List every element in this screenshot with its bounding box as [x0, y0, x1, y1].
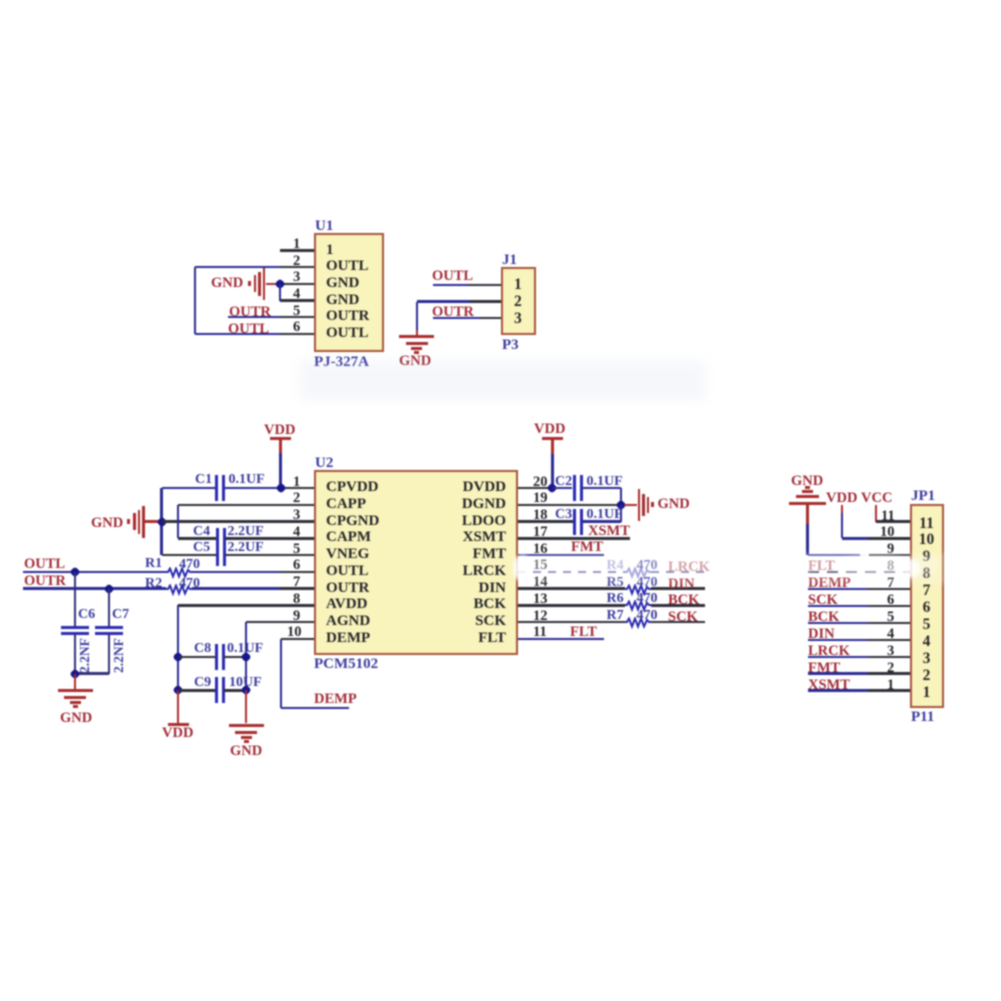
ground GND symbol (right of U2): [638, 489, 641, 521]
net label BCK (JP1 pin 5): [808, 610, 839, 625]
C2 label: [555, 475, 572, 489]
capacitor C8 plates: [215, 644, 218, 670]
wire OUTL net: U1 loop vertical: [194, 267, 196, 334]
U2 pin 7 number: [293, 575, 300, 590]
wire SCK right: [651, 621, 705, 623]
wire OUTR net: U1 pin5: [228, 316, 280, 318]
net label LRCK (JP1 pin 3): [808, 644, 850, 659]
U2 pin 2 name CAPP: [326, 497, 366, 512]
J1 pin 3 number: [514, 311, 522, 327]
U2 pin 16 number: [533, 542, 548, 557]
JP1 pin 3 inside number: [916, 651, 937, 667]
U1 pin 6 number: [293, 320, 300, 335]
junction node OUTR/C7: [104, 583, 115, 594]
wire GND stub to rail (U2 pin3): [145, 520, 158, 522]
C9 label: [194, 676, 211, 690]
wire OUTL net: U1 pin6 horizontal: [195, 333, 280, 335]
U2 pin 18 stub: [518, 520, 573, 522]
U2 pin 17 wire XSMT: [518, 537, 630, 539]
wire GND stem red (JP1): [806, 503, 808, 524]
ground GND (JP1) symbol: [789, 502, 826, 505]
U1 pin 5 stub: [280, 316, 314, 318]
JP1 pin 2 external number: [887, 661, 894, 676]
resistor R5 zigzag: [625, 584, 651, 596]
watermark blob JP1 inside: [908, 557, 938, 575]
U2 pin 5 name VNEG: [326, 547, 369, 562]
net label OUTL (J1): [432, 269, 473, 284]
C6 label: [78, 608, 95, 622]
wire C6-C7 bottom link: [75, 672, 110, 674]
wire OUTR left segment: [23, 587, 166, 589]
net label FLT (U2): [570, 625, 597, 640]
wire C8 right: [224, 656, 246, 658]
JP1 pin 1 wire blue: [808, 689, 868, 691]
C3 label: [555, 508, 572, 522]
JP1 pin 5 external number: [887, 610, 894, 625]
U2 pin 20 stub: [518, 487, 552, 489]
wire BCK right: [651, 604, 705, 606]
JP1 pin 4 wire blue: [808, 639, 868, 641]
wire C1 right to pin1 node: [225, 487, 278, 489]
net label LRCK (faded): [668, 560, 710, 575]
C3 value 0.1UF: [587, 508, 623, 522]
net label XSMT (JP1 pin 1): [808, 678, 850, 693]
U2 pin 20 name DVDD: [420, 480, 506, 495]
R6 value 470: [637, 592, 658, 606]
U2 pin 7 stub: [280, 587, 314, 589]
U2 pin 4 name CAPM: [326, 530, 371, 545]
power VDD label (JP1): [826, 491, 857, 506]
U2 pin 1 name CPVDD: [326, 480, 379, 495]
R2 value 470: [179, 577, 200, 591]
wire GND vertical (J1): [416, 302, 418, 331]
ground GND (below C9): [229, 724, 264, 728]
U1 pin 3 name GND: [326, 276, 359, 291]
wire GND to J1 pin2 horizontal: [417, 300, 470, 302]
net label SCK: [668, 610, 698, 625]
R2 label: [145, 577, 162, 591]
U2 pin 18 name LDOO: [420, 514, 506, 529]
JP1 part label P11: [911, 710, 934, 725]
ground GND symbol (U2 left): [127, 519, 130, 524]
U2 pin 19 wire: [518, 504, 621, 506]
U2 pin 6 name OUTL: [326, 564, 369, 579]
net label OUTR (J1): [432, 305, 474, 320]
wire rail2 CAPP-CAPM vertical: [177, 505, 179, 539]
U2 pin 3 stub: [280, 520, 314, 522]
wire GND stem blue (JP1): [806, 524, 808, 555]
wire DEMP horizontal: [281, 707, 350, 709]
wire C2 right: [582, 487, 621, 489]
U2 pin 3 name CPGND: [326, 514, 379, 529]
power VDD symbol (above U2 pin1): [264, 423, 295, 438]
wire VDD stem blue (pin20): [551, 454, 553, 488]
U2 pin 13 wire left: [518, 604, 625, 606]
U2 pin 16 wire FMT: [518, 554, 604, 556]
R5 label: [607, 576, 624, 590]
JP1 pin 3 wire blue: [808, 656, 868, 658]
JP1 pin 11 inside number: [916, 516, 937, 532]
C5 value 2.2UF: [228, 541, 264, 555]
R7 value 470: [637, 609, 658, 623]
wire VDD stem red (JP1): [841, 505, 843, 514]
JP1 pin 6 external number: [887, 593, 894, 608]
U2 pin 12 name SCK: [420, 614, 506, 629]
U1 pin 1 stub: [280, 249, 314, 251]
wire C2 down to pin19 node: [620, 488, 622, 505]
junction node OUTL/C6: [69, 566, 80, 577]
wire C7 bottom: [108, 635, 110, 674]
wire C8 left: [178, 656, 215, 658]
power VDD symbol (bottom): [168, 723, 189, 726]
wire C3 up to pin19 node: [620, 505, 622, 522]
R1 value 470: [179, 558, 200, 572]
U1 pin 2 name OUTL: [326, 259, 369, 274]
wire OUTL to J1 pin1 (blue): [433, 284, 468, 286]
wire pin2 to rail2: [178, 504, 280, 506]
U2 pin 5 number: [293, 542, 300, 557]
U2 pin 8 name AVDD: [326, 597, 367, 612]
net label FLT (JP1 pin 8): [808, 559, 835, 574]
U1 pin 4 stub: [280, 299, 314, 301]
U2 pin 10 name DEMP: [326, 631, 370, 646]
junction node AVDD/C8: [172, 651, 183, 662]
capacitor C5 plates: [216, 545, 219, 566]
wire GND stem (C6): [74, 674, 76, 689]
capacitor C2 plates: [573, 475, 576, 501]
watermark tint band (upper): [300, 361, 706, 400]
JP1 pin 7 inside number: [916, 583, 937, 599]
U2 pin 1 stub: [280, 487, 314, 489]
U2 pin 9 stub+wire AGND: [246, 621, 314, 623]
J1 designator: [502, 253, 517, 268]
net label OUTL (U1 pin6): [228, 322, 269, 337]
U1 part label PJ-327A: [314, 355, 369, 370]
C6 value 2.2NF (rotated): [78, 638, 92, 673]
JP1 pin 6 inside number: [916, 600, 937, 616]
U2 pin 15 name LRCK: [420, 564, 506, 579]
C8 value 0.1UF: [227, 642, 263, 656]
JP1 pin 6 wire blue: [808, 605, 868, 607]
U2 pin 1 number: [293, 475, 300, 490]
JP1 pin 8 wire (faded): [808, 571, 910, 573]
net label OUTL (left edge): [24, 557, 65, 572]
wire OUTR right segment to pin7: [192, 587, 280, 589]
U2 pin 9 name AGND: [326, 614, 370, 629]
U2 pin 14 wire left: [518, 587, 625, 589]
ic U2 PCM5102 body: [314, 470, 518, 655]
U2 pin 17 number: [533, 525, 548, 540]
capacitor C3 plates: [573, 509, 576, 535]
power VCC label (JP1): [861, 491, 892, 506]
U1 pin 2 number: [293, 254, 300, 269]
R4 value 470 (faded): [637, 559, 658, 573]
U2 pin 5 stub: [280, 554, 314, 556]
net label SCK (JP1 pin 6): [808, 593, 838, 608]
JP1 pin 7 external number: [887, 576, 894, 591]
connector U1 PJ-327A body: [314, 233, 384, 352]
C5 label: [193, 541, 210, 555]
capacitor C6 plates: [61, 626, 89, 629]
power VDD symbol (above U2 pin20): [534, 422, 565, 437]
U2 pin 12 number: [533, 609, 548, 624]
ground GND (below C6): [58, 689, 93, 693]
wire VDD stem blue (pin1): [279, 453, 281, 488]
U1 pin 6 stub: [280, 333, 314, 335]
resistor R6 zigzag: [625, 600, 651, 612]
JP1 pin 8 inside number: [916, 566, 937, 582]
wire C5 right to pin5: [225, 554, 280, 556]
watermark band: [520, 553, 1001, 584]
wire pin20 node to C2: [552, 487, 572, 489]
U2 pin 15 number: [533, 558, 548, 573]
wire C7 top: [108, 589, 110, 628]
junction node rail/pin3: [156, 516, 167, 527]
JP1 pin 4 external number: [887, 627, 894, 642]
U1 pin 2 stub: [280, 266, 314, 268]
wire VDD stem blue (JP1): [841, 513, 843, 538]
JP1 pin 5 wire blue: [808, 622, 868, 624]
U2 pin 14 name DIN: [420, 581, 506, 596]
wire OUTL right segment to pin6: [192, 571, 280, 573]
U2 pin 10 number: [287, 625, 302, 640]
U2 pin 10 stub DEMP: [281, 638, 314, 640]
net label DEMP: [314, 692, 357, 707]
wire VDD stem (below C9 left): [177, 690, 179, 723]
watermark dash on JP1 pin9: [860, 553, 869, 557]
U1 pin 3 stub: [280, 283, 314, 285]
JP1 pin 11 wire: [876, 520, 910, 522]
U1 designator: [315, 219, 333, 234]
JP1 pin 5 inside number: [916, 617, 937, 633]
U1 pin 1 name 1: [326, 243, 334, 258]
wire VDD stem red (pin1): [279, 439, 281, 453]
U1 pin 4 number: [293, 287, 300, 302]
C1 value 0.1UF: [229, 473, 265, 487]
resistor R7 zigzag: [625, 617, 651, 629]
U2 pin 14 number: [533, 575, 548, 590]
wire OUTL left segment: [23, 571, 166, 573]
junction node C6/GND: [69, 668, 80, 679]
junction node AGND/C9: [241, 685, 252, 696]
U2 pin 9 number: [293, 609, 300, 624]
wire DIN right: [651, 587, 705, 589]
U2 pin 13 number: [533, 592, 548, 607]
wire C3 right: [582, 520, 621, 522]
C4 value 2.2UF: [228, 525, 264, 539]
net label XSMT: [588, 524, 630, 539]
connector JP1 P11 body: [910, 504, 944, 708]
U2 pin 3 number: [293, 508, 300, 523]
wire C6 top: [74, 572, 76, 628]
ground GND symbol (U1): [248, 281, 251, 286]
U1 pin 4 name GND: [326, 293, 359, 308]
wire AVDD rail vertical: [177, 605, 179, 690]
net label FMT (JP1 pin 2): [808, 661, 840, 676]
C9 value 10UF: [229, 676, 262, 690]
J1 part label P3: [502, 338, 519, 353]
watermark blob left of JP1: [838, 555, 908, 576]
J1 pin 1 number: [514, 277, 522, 293]
wire VCC stem red (JP1): [875, 505, 877, 522]
U2 pin 7 name OUTR: [326, 581, 369, 596]
R7 label: [607, 609, 624, 623]
net label FMT: [571, 540, 603, 555]
ground GND (JP1) text: [791, 474, 823, 489]
U2 pin 11 number: [533, 625, 547, 640]
U2 pin 15 wire left (faded): [518, 571, 625, 573]
wire DEMP vertical: [280, 639, 282, 708]
net label OUTR (left edge): [24, 574, 66, 589]
watermark blob JP1 border gap: [901, 559, 920, 578]
JP1 pin 9 wire blue: [808, 554, 869, 556]
U2 pin 13 name BCK: [420, 597, 506, 612]
junction node pin19/GND: [615, 499, 626, 510]
U2 pin 6 stub: [280, 571, 314, 573]
U2 pin 2 stub: [280, 504, 314, 506]
watermark blob U2 border gap: [513, 555, 531, 581]
JP1 pin 9 inside number: [916, 549, 937, 565]
U2 pin 12 wire left: [518, 621, 625, 623]
U1 pin 1 number: [293, 237, 300, 252]
junction node U1 pin3: [274, 278, 285, 289]
net label DIN (JP1 pin 4): [808, 627, 835, 642]
U2 designator: [315, 456, 333, 471]
U1 pin 3 number: [293, 270, 300, 285]
JP1 designator: [911, 489, 935, 504]
JP1 pin 3 external number: [887, 644, 894, 659]
resistor R4 zigzag (faded): [625, 567, 651, 579]
JP1 pin 1 inside number: [916, 685, 937, 701]
R5 value 470: [637, 576, 658, 590]
JP1 pin 11 external number: [881, 509, 895, 524]
wire AGND rail vertical: [245, 622, 247, 690]
wire GND stem red (J1): [416, 330, 418, 335]
U2 pin 20 number: [533, 475, 548, 490]
wire GND to J1 pin2 pin seg: [470, 300, 501, 302]
U2 pin 11 wire FLT: [518, 638, 604, 640]
U2 pin 8 stub+wire AVDD: [178, 604, 314, 606]
wire GND stub red (pin19): [624, 504, 637, 506]
wire pin3 to rail: [162, 520, 281, 522]
C8 label: [194, 642, 211, 656]
capacitor C1 plates: [215, 475, 218, 501]
R1 label: [145, 557, 162, 571]
wire OUTR to J1 pin3 (blue): [433, 317, 480, 319]
wire OUTL to J1 pin1 (pin): [468, 284, 501, 286]
net label DEMP (JP1 pin 7): [808, 576, 851, 591]
U2 pin 6 number: [293, 558, 300, 573]
wire C9 right: [224, 689, 246, 691]
wire GND stub to U1 pin3 node: [266, 283, 281, 285]
connector J1 P3 body: [501, 267, 536, 335]
U1 pin 5 number: [293, 304, 300, 319]
wire C4 left: [178, 537, 216, 539]
wire C6 bottom: [74, 635, 76, 674]
JP1 pin 10 external number: [880, 525, 895, 540]
JP1 pin 2 inside number: [916, 668, 937, 684]
U2 pin 8 number: [293, 592, 300, 607]
U2 pin 17 name XSMT: [420, 530, 506, 545]
wire LRCK right (faded): [651, 571, 705, 573]
C7 label: [112, 608, 129, 622]
U2 pin 18 number: [533, 508, 548, 523]
JP1 pin 4 inside number: [916, 634, 937, 650]
wire C9 left: [178, 689, 215, 691]
C2 value 0.1UF: [587, 475, 623, 489]
wire OUTR to J1 pin3 (pin): [480, 317, 501, 319]
C1 label: [195, 473, 212, 487]
wire C1 left to rail: [162, 487, 216, 489]
JP1 pin 9 external number: [887, 542, 894, 557]
ground GND (J1): [399, 335, 434, 339]
U2 pin 4 number: [293, 525, 300, 540]
net label DIN: [668, 577, 695, 592]
net label BCK: [668, 593, 699, 608]
junction node VDD/pin20: [547, 482, 558, 493]
U2 pin 11 name FLT: [420, 631, 506, 646]
JP1 pin 8 external number: [887, 559, 894, 574]
JP1 pin 2 wire blue: [808, 672, 868, 674]
junction node AVDD/C9: [172, 685, 183, 696]
U2 pin 16 name FMT: [420, 547, 506, 562]
wire U1 pin3 to pin4: [279, 284, 281, 301]
wire VDD stem red (pin20): [551, 440, 553, 454]
wire C5 left: [162, 554, 217, 556]
U2 pin 4 stub: [280, 537, 314, 539]
C7 value 2.2NF (rotated): [112, 638, 126, 673]
J1 pin 2 number: [514, 294, 522, 310]
capacitor C4 plates: [216, 528, 219, 549]
U2 part label PCM5102: [314, 657, 378, 672]
wire GND stem (below C9 right): [245, 690, 247, 723]
JP1 pin 10 wire blue: [842, 537, 868, 539]
U1 pin 6 name OUTL: [326, 326, 369, 341]
JP1 pin 1 external number: [887, 678, 894, 693]
capacitor C7 plates: [95, 626, 123, 629]
resistor R1 zigzag: [166, 567, 192, 579]
C4 label: [193, 525, 210, 539]
JP1 pin 7 wire blue: [808, 588, 868, 590]
JP1 pin 10 inside number: [916, 532, 937, 548]
U2 pin 19 number: [533, 491, 548, 506]
R6 label: [607, 592, 624, 606]
wire OUTL net: U1 pin2 horizontal: [195, 266, 280, 268]
capacitor C9 plates: [215, 677, 218, 703]
junction node VDD/pin1: [275, 482, 286, 493]
wire C4 right to pin4: [225, 537, 280, 539]
net label OUTR (U1 pin5): [229, 305, 271, 320]
junction node AGND/C8: [241, 651, 252, 662]
resistor R2 zigzag: [166, 584, 192, 596]
U2 pin 2 number: [293, 491, 300, 506]
U2 pin 19 name DGND: [420, 497, 506, 512]
R4 label (faded): [607, 559, 624, 573]
U1 pin 5 name OUTR: [326, 309, 369, 324]
watermark blob mid: [742, 550, 808, 582]
wire rail C1-VNEG vertical: [160, 488, 162, 555]
